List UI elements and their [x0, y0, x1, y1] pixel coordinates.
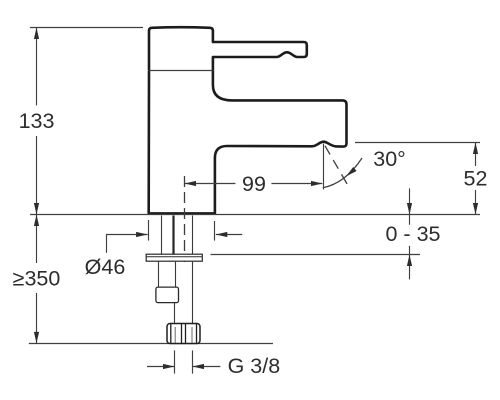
- hose line from block to nut: [174, 303, 176, 324]
- faucet handle cap and lever (thick outline): [149, 27, 307, 71]
- diameter 46 dimension leader: [107, 235, 148, 253]
- faucet body, spout and base (thick outline): [149, 71, 347, 214]
- svg-text:≥350: ≥350: [13, 267, 61, 291]
- outlet vertical extension line: [323, 144, 325, 190]
- hose end block: [156, 287, 179, 303]
- right supply hose line: [192, 261, 194, 323]
- knurled nut: [167, 324, 200, 344]
- svg-text:Ø46: Ø46: [85, 255, 126, 279]
- dimension 52 line: [475, 143, 477, 167]
- G3/8 dimension: [147, 366, 175, 368]
- dimension 0-35 lower arrow: [409, 246, 411, 280]
- svg-text:30°: 30°: [373, 147, 406, 171]
- dashed 30 degree line: [324, 143, 348, 184]
- svg-text:133: 133: [19, 109, 55, 133]
- diameter 46 extension lines: [148, 220, 150, 241]
- bottom extension line (>=350): [29, 343, 273, 345]
- supply pipe lines under body: [161, 216, 163, 255]
- top extension line (133): [30, 27, 143, 29]
- svg-text:0 - 35: 0 - 35: [386, 222, 441, 246]
- mounting flange: [146, 254, 202, 261]
- dimension 133 line: [36, 28, 38, 106]
- right extension line at outlet level: [355, 142, 480, 144]
- left supply hose below flange: [158, 261, 160, 287]
- dimension 0-35 upper arrow: [409, 188, 411, 224]
- dimension 99 line: [185, 183, 236, 185]
- center axis dashed line: [184, 176, 186, 262]
- G3/8 extension lines: [174, 350, 176, 373]
- joint line between cap and body: [149, 70, 213, 72]
- base reference line: [30, 214, 480, 216]
- svg-text:52: 52: [464, 167, 488, 191]
- arc arrowhead: [346, 167, 357, 176]
- svg-text:99: 99: [242, 172, 266, 196]
- svg-text:G 3/8: G 3/8: [228, 354, 281, 378]
- dimension >=350 line: [36, 215, 38, 264]
- angle arc: [323, 158, 362, 188]
- lower reference line (0-35): [211, 254, 421, 256]
